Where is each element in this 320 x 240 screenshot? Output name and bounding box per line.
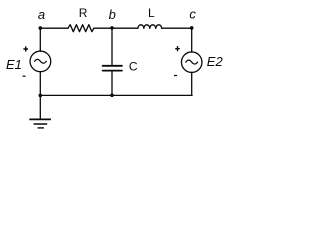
junction node dots — [39, 26, 194, 97]
bottom-middle junction — [110, 94, 114, 98]
svg-text:a: a — [38, 7, 45, 22]
wire resistor to inductor — [94, 27, 138, 29]
svg-text:R: R — [79, 6, 88, 20]
bottom rail wire — [40, 94, 192, 96]
sine symbol in E1 — [35, 59, 47, 63]
capacitor branch wire from node b — [111, 28, 113, 65]
plus E1 — [23, 46, 28, 51]
voltage source E1 circle — [30, 51, 51, 72]
capacitor bottom wire — [111, 72, 113, 96]
polarity marks — [23, 46, 180, 76]
minus E1 — [23, 75, 26, 77]
wire node c down to E2 top — [191, 28, 193, 52]
ground stem — [39, 95, 41, 118]
voltage source E2 circle — [181, 52, 202, 72]
inductor L — [138, 25, 162, 28]
node b junction — [110, 26, 114, 30]
sine symbol in E2 — [186, 60, 198, 64]
wire top rail a to resistor — [40, 27, 68, 29]
wire E2 bottom to bottom rail — [191, 72, 193, 95]
node c junction — [190, 26, 194, 30]
minus E2 — [174, 75, 177, 77]
plus E2 — [175, 46, 180, 51]
svg-text:C: C — [129, 59, 138, 73]
resistor R — [68, 25, 94, 32]
svg-text:b: b — [109, 7, 116, 22]
bottom-left junction — [39, 94, 43, 98]
svg-text:E1: E1 — [6, 57, 22, 72]
wire node a down to E1 top — [39, 28, 41, 51]
capacitor C plates — [103, 65, 122, 67]
svg-text:L: L — [148, 6, 155, 20]
wire inductor to node c — [162, 27, 192, 29]
node a junction — [39, 26, 43, 30]
wire E1 bottom to bottom rail — [39, 72, 41, 96]
svg-text:c: c — [189, 7, 196, 22]
ground symbol bars — [29, 119, 51, 128]
svg-text:E2: E2 — [207, 54, 224, 69]
